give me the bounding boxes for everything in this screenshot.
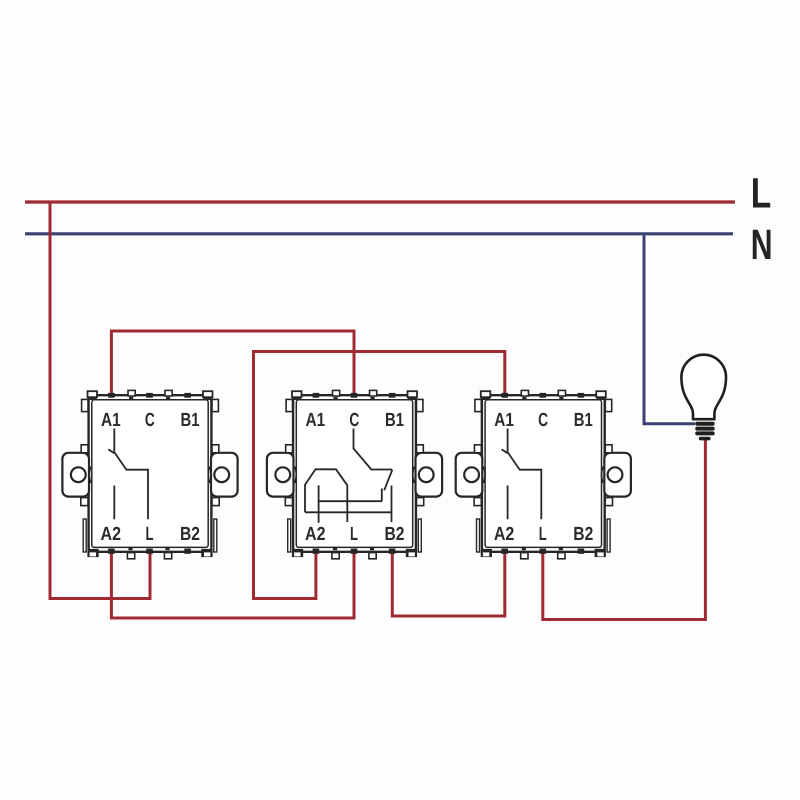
- wire switch S3 pin L to lamp E1: [543, 437, 706, 620]
- switch S2 bottom pins A2 L B2: [313, 549, 396, 554]
- svg-text:A2: A2: [305, 524, 326, 545]
- switch S1 frame: [89, 395, 212, 552]
- switch S1 contact mechanism: [108, 429, 148, 520]
- switch S2 contact mechanism: [305, 429, 392, 523]
- switch S3 frame: [482, 395, 605, 552]
- svg-text:B1: B1: [574, 410, 593, 431]
- switch S1 right mounting ear: [208, 399, 237, 552]
- switch S3 contact mechanism: [502, 429, 542, 520]
- svg-text:A2: A2: [101, 524, 122, 545]
- wire switch S1 pin A2 to switch S2 pin L: [111, 552, 354, 618]
- switch S1 left mounting ear: [62, 399, 91, 552]
- switch S2 right mounting ear: [413, 399, 442, 552]
- svg-text:A1: A1: [494, 410, 514, 431]
- wire switch S2 pin A2 to switch S3 pin A1: [254, 352, 505, 599]
- switch S3 top pins A1 C B1: [501, 393, 584, 398]
- switch S3 bottom pins A2 L B2: [501, 549, 584, 554]
- switch S3 right mounting ear: [602, 399, 631, 552]
- wire N branch to lamp E1: [644, 234, 695, 424]
- svg-text:L: L: [350, 524, 358, 545]
- svg-text:L: L: [146, 524, 154, 545]
- svg-text:L: L: [751, 170, 772, 217]
- svg-text:C: C: [145, 410, 155, 431]
- svg-text:N: N: [751, 222, 773, 269]
- svg-text:C: C: [349, 410, 359, 431]
- switch S3 left mounting ear: [456, 399, 485, 552]
- switch S2 frame: [293, 395, 416, 552]
- wire switch S1 pin A1 to switch S2 pin C: [111, 331, 354, 396]
- switch S1 bottom pins A2 L B2: [108, 549, 191, 554]
- switch S2 top pins A1 C B1: [313, 393, 396, 398]
- svg-text:B1: B1: [385, 410, 404, 431]
- svg-text:A1: A1: [101, 410, 121, 431]
- switch S1 top pins A1 C B1: [108, 393, 191, 398]
- switch S2 left mounting ear: [267, 399, 296, 552]
- svg-text:B1: B1: [181, 410, 200, 431]
- svg-text:C: C: [538, 410, 548, 431]
- switch S3 bottom edge tabs: [481, 547, 606, 559]
- wire switch S2 pin B2 to switch S3 pin A2: [392, 552, 505, 616]
- switch S1 top edge tabs: [88, 390, 213, 400]
- N neutral supply line: [25, 232, 733, 235]
- svg-text:B2: B2: [180, 524, 200, 545]
- wire L feed to switch S1 pin L: [50, 202, 150, 599]
- switch S2 top edge tabs: [292, 390, 417, 400]
- svg-text:A1: A1: [305, 410, 325, 431]
- svg-text:B2: B2: [385, 524, 405, 545]
- svg-text:A2: A2: [494, 524, 515, 545]
- switch S1 bottom edge tabs: [87, 547, 212, 559]
- switch S2 bottom edge tabs: [292, 547, 417, 559]
- lamp E1 base contact: [699, 437, 711, 441]
- lamp E1 bulb glass: [681, 355, 726, 420]
- svg-text:L: L: [539, 524, 547, 545]
- L live supply line: [25, 200, 735, 203]
- lamp E1 screw threads: [695, 422, 715, 436]
- svg-text:B2: B2: [573, 524, 593, 545]
- switch S3 top edge tabs: [481, 390, 606, 400]
